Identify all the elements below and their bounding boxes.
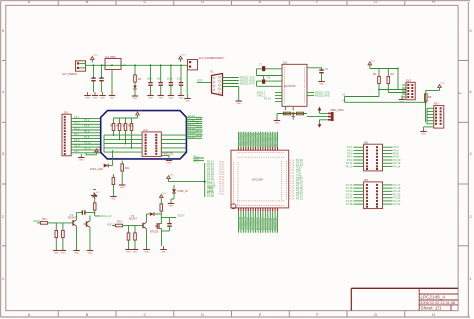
svg-text:G: G — [374, 312, 377, 317]
svg-text:E: E — [259, 312, 262, 317]
svg-text:BC547: BC547 — [129, 216, 137, 220]
svg-text:P1.20: P1.20 — [196, 116, 203, 120]
svg-text:P1.23: P1.23 — [196, 129, 203, 133]
svg-text:IC2: IC2 — [283, 60, 288, 64]
svg-text:H: H — [432, 312, 435, 317]
svg-text:DIAG_LED: DIAG_LED — [90, 167, 103, 171]
svg-text:X1_A: X1_A — [74, 144, 81, 148]
svg-text:D: D — [201, 0, 204, 4]
svg-text:B: B — [86, 312, 89, 317]
svg-text:P1.22: P1.22 — [196, 125, 203, 129]
svg-text:SV3: SV3 — [434, 102, 439, 106]
svg-text:R12: R12 — [42, 217, 47, 221]
svg-text:RS232_RTS: RS232_RTS — [240, 82, 255, 86]
svg-text:P1.21: P1.21 — [196, 120, 203, 124]
svg-text:P0.1: P0.1 — [74, 115, 80, 119]
svg-text:74HC125: 74HC125 — [162, 152, 174, 156]
svg-text:ADC0: ADC0 — [33, 219, 40, 223]
svg-text:X1: X1 — [210, 70, 214, 74]
svg-text:P0.25: P0.25 — [207, 190, 214, 194]
svg-text:PWR_IN: PWR_IN — [178, 189, 188, 193]
svg-text:IC3: IC3 — [143, 128, 148, 132]
svg-text:R9: R9 — [122, 124, 126, 128]
svg-text:BC547: BC547 — [68, 215, 76, 219]
svg-text:2006.02.02 22:41:38: 2006.02.02 22:41:38 — [420, 301, 455, 305]
svg-text:DTR: DTR — [197, 79, 202, 83]
svg-text:C: C — [144, 0, 147, 4]
svg-text:X2: X2 — [342, 93, 346, 97]
svg-text:MAX3232: MAX3232 — [284, 84, 296, 88]
svg-text:RST: RST — [74, 149, 80, 153]
svg-text:P1.31: P1.31 — [394, 202, 401, 206]
svg-text:P0.23: P0.23 — [296, 196, 303, 200]
svg-text:10u: 10u — [177, 76, 182, 80]
svg-text:P0.18: P0.18 — [188, 127, 195, 131]
svg-text:R5: R5 — [428, 95, 432, 99]
svg-text:A: A — [28, 312, 31, 317]
svg-text:10u: 10u — [157, 76, 162, 80]
svg-text:P0.13: P0.13 — [346, 164, 353, 168]
svg-text:R11: R11 — [125, 166, 130, 170]
svg-text:R15: R15 — [117, 220, 122, 224]
svg-text:LPC2148_A: LPC2148_A — [421, 295, 447, 300]
svg-text:P0.14: P0.14 — [264, 97, 271, 101]
svg-text:SV2: SV2 — [406, 78, 411, 82]
svg-text:P0.3: P0.3 — [74, 121, 80, 125]
svg-text:P0.2: P0.2 — [84, 118, 90, 122]
svg-text:100n: 100n — [147, 76, 153, 80]
svg-text:H: H — [432, 0, 435, 4]
svg-text:P0.9: P0.9 — [74, 138, 80, 142]
svg-text:JP3: JP3 — [364, 178, 369, 182]
svg-text:A: A — [28, 0, 31, 4]
svg-text:ALT_POWERSUPPLY: ALT_POWERSUPPLY — [199, 56, 225, 60]
svg-text:P0.7: P0.7 — [74, 132, 80, 136]
svg-text:P0.5: P0.5 — [74, 126, 80, 130]
svg-text:P1.24: P1.24 — [196, 133, 203, 137]
svg-text:R8: R8 — [116, 124, 120, 128]
svg-text:P0.19: P0.19 — [188, 131, 195, 135]
svg-text:C7: C7 — [259, 62, 263, 66]
svg-text:X3: X3 — [342, 98, 346, 102]
svg-text:C9: C9 — [325, 67, 329, 71]
svg-text:VBAT: VBAT — [207, 185, 214, 189]
svg-text:P0.6: P0.6 — [84, 129, 90, 133]
svg-text:D: D — [201, 312, 204, 317]
svg-text:R1: R1 — [138, 77, 142, 81]
svg-text:R7: R7 — [110, 124, 114, 128]
svg-text:DIAG_A0: DIAG_A0 — [101, 214, 113, 218]
svg-text:P0.10: P0.10 — [84, 141, 91, 145]
svg-text:ALT_PWRIN: ALT_PWRIN — [62, 72, 77, 76]
svg-text:P0.8: P0.8 — [84, 135, 90, 139]
svg-text:C: C — [144, 312, 147, 317]
svg-text:R10: R10 — [128, 124, 133, 128]
svg-text:SOUT: SOUT — [178, 213, 186, 217]
svg-text:ADC1: ADC1 — [107, 223, 114, 227]
svg-text:P1.28: P1.28 — [207, 194, 214, 198]
svg-text:LPC2148: LPC2148 — [252, 178, 263, 182]
svg-text:JP2: JP2 — [364, 140, 369, 144]
svg-text:C8: C8 — [267, 76, 271, 80]
svg-text:G: G — [374, 0, 377, 4]
svg-text:P1.22: P1.22 — [219, 194, 225, 196]
svg-text:P1.28: P1.28 — [346, 202, 353, 206]
svg-text:IC1 7805: IC1 7805 — [105, 55, 116, 59]
svg-text:DBG_PGM: DBG_PGM — [331, 108, 344, 112]
svg-text:Sheet: 1/1: Sheet: 1/1 — [421, 306, 442, 311]
svg-text:NTD25: NTD25 — [150, 230, 159, 234]
svg-text:P1.31: P1.31 — [289, 198, 295, 200]
svg-text:100n: 100n — [167, 76, 173, 80]
svg-text:P0.14: P0.14 — [394, 164, 401, 168]
svg-text:R4: R4 — [391, 72, 395, 76]
svg-text:P0.17: P0.17 — [188, 122, 195, 126]
svg-text:R3: R3 — [373, 72, 377, 76]
svg-text:P0.20: P0.20 — [188, 135, 195, 139]
svg-text:P0.15: P0.15 — [188, 114, 195, 118]
svg-text:E: E — [259, 0, 262, 4]
svg-text:P0.4: P0.4 — [84, 124, 90, 128]
svg-text:P0.16: P0.16 — [188, 118, 195, 122]
svg-text:RS232_RXD: RS232_RXD — [315, 94, 330, 98]
svg-text:B: B — [86, 0, 89, 4]
svg-text:JP1: JP1 — [64, 110, 69, 114]
svg-text:X2_A: X2_A — [84, 146, 91, 150]
